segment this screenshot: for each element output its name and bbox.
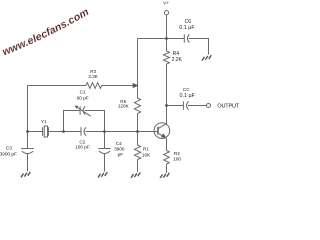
svg-text:OUTPUT: OUTPUT: [217, 103, 240, 109]
svg-text:0.1 µF: 0.1 µF: [180, 93, 196, 99]
svg-text:3.3K: 3.3K: [88, 74, 99, 79]
svg-text:C4: C4: [116, 141, 122, 146]
svg-text:3900: 3900: [114, 146, 125, 151]
svg-text:R2: R2: [174, 151, 180, 156]
svg-text:3900 pF: 3900 pF: [0, 152, 17, 157]
svg-text:100 pF: 100 pF: [75, 144, 90, 149]
svg-text:R1: R1: [143, 147, 149, 152]
svg-text:C1: C1: [80, 90, 86, 95]
svg-text:60 pF: 60 pF: [77, 96, 89, 101]
svg-text:120K: 120K: [118, 104, 130, 109]
svg-text:V+: V+: [163, 1, 169, 6]
svg-text:0.1 µF: 0.1 µF: [179, 25, 195, 31]
svg-text:pF: pF: [118, 152, 124, 157]
svg-text:2.2K: 2.2K: [172, 57, 183, 63]
svg-text:100: 100: [173, 157, 181, 162]
svg-text:C3: C3: [6, 146, 12, 151]
svg-text:CC: CC: [183, 87, 190, 92]
svg-text:10K: 10K: [142, 152, 151, 157]
svg-text:www.elecfans.com: www.elecfans.com: [1, 6, 91, 58]
svg-text:Y1: Y1: [41, 119, 47, 124]
